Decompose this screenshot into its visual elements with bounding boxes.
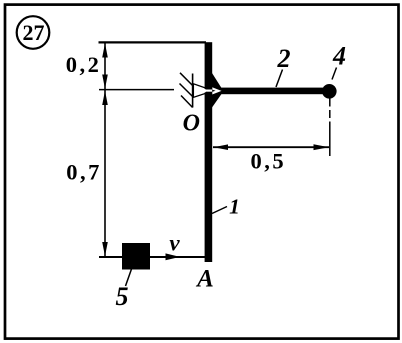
pivot pin hole [203,89,207,93]
pivot triangle [193,84,213,98]
pivot hatch 2 [180,84,193,97]
svg-text:0,2: 0,2 [66,52,102,77]
white slot through rod at pivot [205,90,212,92]
svg-text:0,5: 0,5 [250,149,286,174]
dimension arrow up (top of 0,7) [102,91,108,105]
pivot hatch 1 [180,73,193,86]
pivot wall line [192,74,194,108]
dimension arrow left (0,5) [214,144,229,150]
dimension arrow down (bottom of 0,7) [102,242,108,256]
leader line for 5 [126,269,132,286]
junction flare bottom [212,94,222,108]
svg-text:4: 4 [332,42,346,71]
dimension arrow up (top of 0,2) [102,43,108,57]
block 5 [122,243,150,270]
ball 4 [322,84,337,99]
junction flare top [212,73,222,88]
svg-text:O: O [183,111,200,137]
leader line for 1 [212,207,227,214]
leader line for 2 [276,70,283,88]
dimension line 0,5 [213,146,329,148]
svg-text:27: 27 [23,20,45,45]
svg-text:0,7: 0,7 [66,159,102,184]
extension line below ball 4 [329,99,331,128]
svg-text:v: v [169,230,180,255]
white fork notch at junction [212,87,221,94]
svg-text:1: 1 [229,195,240,219]
dimension extension line at pivot level [99,89,174,91]
pivot hatch 3 [181,96,193,108]
svg-text:A: A [195,266,214,293]
vertical dimension line (0,2 and 0,7) [104,42,106,257]
svg-text:5: 5 [116,282,129,311]
problem number circle 27 [17,16,50,49]
velocity arrow v [166,253,181,260]
rod 2 (horizontal rod) [212,88,325,95]
ground line [99,256,205,258]
svg-text:2: 2 [277,44,291,73]
top reference line [99,41,207,43]
dimension arrow right (0,5) [314,144,330,150]
leader line for 4 [332,68,337,80]
rod 1 (vertical rod) [205,42,213,262]
dimension arrow down (bottom of 0,2) [102,75,108,89]
